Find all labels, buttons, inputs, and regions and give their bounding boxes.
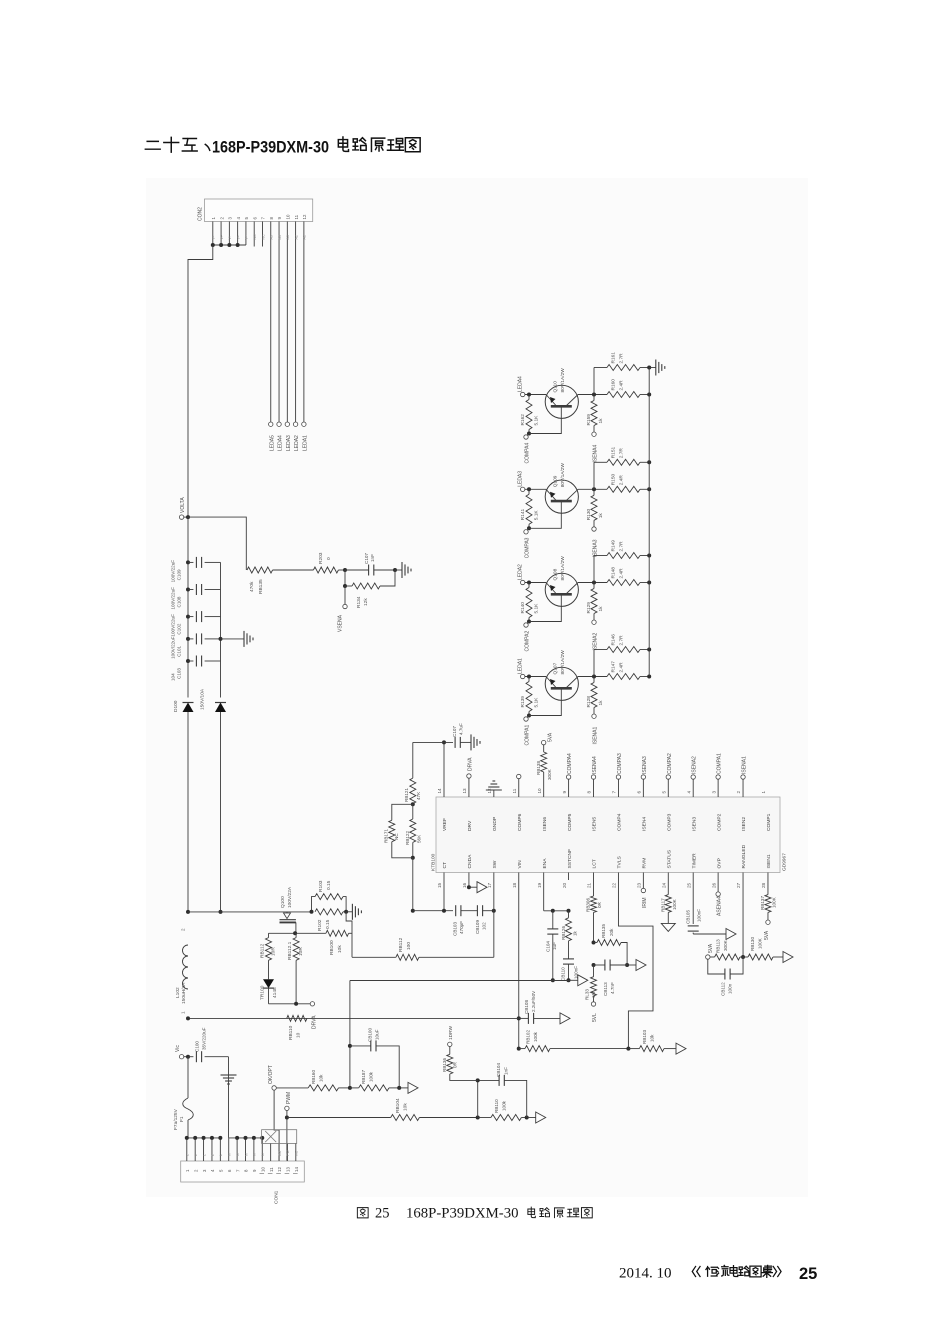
resistor RB113 300K (710, 939, 743, 960)
schematic background panel (146, 178, 808, 1197)
svg-text:F1: F1 (179, 1116, 185, 1122)
svg-text:NC: NC (394, 833, 399, 840)
svg-text:1nF: 1nF (504, 1067, 509, 1075)
svg-text:23: 23 (637, 882, 642, 888)
capacitor C101 100V/22uF (171, 633, 221, 659)
svg-text:100nF: 100nF (697, 909, 702, 922)
svg-text:Q110: Q110 (553, 381, 559, 393)
resistor R140 5.1K (520, 583, 540, 624)
resistor R151 2.7R (607, 447, 651, 466)
resistor R130 1k (586, 489, 604, 527)
net labels on CON2 wires (212, 234, 307, 240)
wire LEDA4 to base (525, 393, 546, 397)
svg-text:VREF: VREF (442, 818, 448, 831)
svg-text:RB100: RB100 (329, 940, 335, 955)
node 5VL (591, 1002, 598, 1022)
svg-text:150uH/3A: 150uH/3A (181, 982, 187, 1004)
svg-text:100K: 100K (772, 896, 777, 908)
ground (filter caps) (221, 631, 254, 647)
svg-text:RB112.1: RB112.1 (287, 941, 293, 960)
svg-text:1k: 1k (598, 418, 604, 424)
svg-text:C104: C104 (546, 941, 551, 952)
svg-text:R160: R160 (611, 379, 617, 391)
svg-text:TR100: TR100 (260, 985, 266, 1000)
svg-text:Q107: Q107 (553, 662, 559, 674)
title text (145, 137, 420, 157)
svg-text:7: 7 (612, 791, 617, 794)
resistor RB110 10 (287, 1015, 307, 1040)
svg-text:R139: R139 (520, 696, 526, 708)
node 5VA (pin28) (764, 920, 770, 940)
svg-text:5VA: 5VA (764, 930, 770, 940)
node ISENA1 (592, 714, 599, 745)
resistor RB112 100 (396, 937, 494, 960)
svg-text:COMP2: COMP2 (716, 813, 722, 831)
wire pin14 VREF (413, 740, 453, 797)
svg-text:ASENA4: ASENA4 (717, 896, 723, 916)
connector CON1 (14-pin) (181, 1161, 305, 1204)
wire pin22 TVLS route (618, 873, 653, 1049)
svg-text:PW: PW (286, 1150, 290, 1156)
resistor RB136 0R (442, 1025, 478, 1080)
svg-text:1k: 1k (573, 930, 578, 936)
svg-text:A1: A1 (303, 235, 307, 239)
svg-text:28: 28 (761, 882, 766, 888)
resistor RB137 100K (pin28) (760, 873, 777, 921)
node DRVA stub (pin13) (467, 757, 474, 797)
svg-text:1uF: 1uF (552, 942, 557, 950)
svg-text:STATUS: STATUS (666, 849, 672, 868)
svg-text:CON2: CON2 (198, 207, 204, 221)
resistor RB306 0R (pin21) (586, 873, 603, 945)
svg-text:N: N (244, 1153, 248, 1156)
wire CON1 pins1-5 tie (185, 1136, 223, 1140)
svg-text:2.4R: 2.4R (619, 475, 625, 486)
wire C100 to CON1 pin6 (228, 1057, 230, 1138)
wire CNDA net horizontal (350, 980, 569, 982)
svg-text:LEDA4: LEDA4 (278, 435, 284, 451)
node LEDA1 (518, 658, 525, 679)
svg-text:1k: 1k (598, 606, 604, 612)
capacitor C102 100V/22uF (171, 611, 221, 637)
node COMPA4 stub (566, 753, 573, 797)
svg-text:RB112: RB112 (260, 943, 266, 958)
svg-text:104: 104 (171, 673, 176, 681)
svg-text:6: 6 (637, 791, 642, 794)
svg-text:N: N (253, 1153, 257, 1156)
svg-text:R140: R140 (520, 602, 526, 614)
capacitor C103 104 (171, 656, 221, 682)
node ISENA2 (592, 620, 599, 651)
svg-text:1k: 1k (598, 513, 604, 519)
svg-text:V+: V+ (228, 235, 232, 240)
capacitor CB100 10uF (350, 1028, 399, 1088)
svg-text:N: N (261, 1153, 265, 1156)
resistor RB103 10k (628, 1030, 676, 1052)
svg-text:ISEN3: ISEN3 (691, 817, 697, 831)
svg-text:LCT: LCT (592, 859, 598, 868)
svg-text:LEDA5: LEDA5 (269, 435, 275, 451)
svg-text:R128: R128 (586, 696, 592, 708)
svg-text:Vic: Vic (175, 1045, 181, 1052)
svg-text:1k: 1k (598, 700, 604, 706)
svg-text:F7a/125V: F7a/125V (173, 1108, 179, 1130)
svg-text:10: 10 (286, 214, 291, 219)
svg-text:COMP6: COMP6 (517, 813, 523, 831)
net labels on CON1 wires (186, 1150, 299, 1156)
svg-text:ISEN6: ISEN6 (542, 817, 548, 831)
svg-text:L: L (194, 1154, 198, 1156)
resistor RL33 1M (585, 965, 597, 1002)
svg-text:L: L (219, 1154, 223, 1156)
wire Q109 collector (578, 487, 607, 491)
svg-text:0R: 0R (453, 1061, 458, 1068)
node COMPA4 (524, 434, 531, 464)
wire pin16 CNDA (467, 873, 477, 890)
ground flag (CNDA) (477, 882, 487, 893)
resistor RB171 NC (384, 804, 413, 858)
svg-text:TVLS: TVLS (617, 856, 623, 869)
svg-text:RB103: RB103 (642, 1030, 647, 1044)
resistor RB126 1k (561, 873, 578, 941)
svg-text:COMPA4: COMPA4 (525, 443, 531, 464)
svg-text:47K: 47K (416, 791, 421, 800)
transistor Q107 80V/1A/2W (545, 650, 578, 701)
svg-text:LEDA3: LEDA3 (518, 471, 524, 487)
svg-text:1: 1 (761, 791, 766, 794)
wire to R146 (594, 650, 607, 677)
svg-text:22: 22 (612, 882, 617, 888)
svg-text:4.7uF: 4.7uF (459, 723, 464, 735)
svg-text:ISENA3: ISENA3 (593, 539, 599, 557)
svg-text:IRIM: IRIM (642, 897, 648, 908)
svg-text:NC: NC (295, 1150, 299, 1156)
svg-text:CON1: CON1 (274, 1190, 280, 1204)
svg-text:10: 10 (296, 1032, 302, 1038)
capacitor CB110 100nF (561, 941, 579, 982)
fuse F1 F7a/125V (173, 1057, 193, 1138)
svg-text:25: 25 (375, 1206, 390, 1222)
svg-text:RB117: RB117 (661, 898, 666, 912)
capacitor C100 35V/220uF (188, 1027, 229, 1062)
svg-text:1nF: 1nF (370, 554, 375, 562)
resistor RB121 47K (404, 742, 421, 806)
node ISENA4 (592, 432, 599, 463)
svg-text:1M: 1M (591, 991, 596, 998)
resistor RB130 100K (743, 937, 783, 960)
node IRIM (pin23) (641, 873, 648, 909)
svg-text:2: 2 (736, 791, 741, 794)
wire SW row (352, 956, 396, 958)
svg-text:168P-P39DXM-30: 168P-P39DXM-30 (212, 138, 329, 157)
resistor R128 1k (586, 677, 604, 715)
svg-text:100V/22uF: 100V/22uF (171, 587, 176, 610)
svg-text:300K: 300K (547, 768, 552, 780)
svg-text:RB187: RB187 (361, 1070, 366, 1084)
svg-text:ENA: ENA (542, 858, 548, 869)
svg-text:R162: R162 (520, 414, 526, 426)
wire sense node down (346, 912, 352, 958)
svg-text:10R: 10R (271, 947, 277, 956)
ground (VREF bypass) (471, 734, 480, 750)
svg-text:10k: 10k (337, 945, 343, 953)
svg-text:25: 25 (799, 1265, 817, 1283)
ground (sense resistors) (346, 904, 361, 920)
svg-text:2.4R: 2.4R (619, 662, 625, 673)
wire VOLTA to divider (188, 517, 246, 570)
svg-text:35V/220uF: 35V/220uF (202, 1027, 207, 1050)
node VSENA (338, 586, 348, 632)
node Vic (175, 1045, 190, 1059)
svg-text:CB109: CB109 (475, 920, 480, 934)
svg-text:C109: C109 (177, 569, 182, 580)
node PWM (285, 1092, 292, 1111)
svg-text:A4: A4 (278, 235, 282, 239)
svg-text:R148: R148 (611, 567, 617, 579)
diode D100 (dual, 150V/10A) (173, 688, 226, 712)
wire diode legs to drain rail (186, 712, 223, 914)
svg-text:100K: 100K (758, 937, 763, 949)
ground GNDP (pin12) (486, 781, 502, 797)
svg-text:CB110: CB110 (561, 967, 566, 981)
svg-text:15: 15 (437, 882, 442, 888)
node OK/OPT (268, 1065, 276, 1090)
svg-text:13: 13 (286, 1167, 291, 1172)
resistor RB110 100k (478, 1099, 529, 1121)
svg-text:5.1K: 5.1K (534, 510, 540, 521)
svg-text:CB100: CB100 (368, 1028, 373, 1042)
svg-text:0.15: 0.15 (325, 919, 331, 929)
svg-text:V+: V+ (245, 235, 249, 240)
svg-text:RANGLED: RANGLED (741, 844, 747, 868)
svg-text:VOLTA: VOLTA (180, 497, 186, 513)
svg-text:27: 27 (736, 882, 741, 888)
node ISENA3 (592, 527, 599, 558)
svg-text:ISENA2: ISENA2 (593, 632, 599, 650)
svg-text:102: 102 (482, 922, 487, 930)
wire filter cap right-side rail (219, 562, 223, 697)
svg-text:C107: C107 (364, 553, 369, 564)
svg-text:10k: 10k (319, 1074, 324, 1082)
svg-text:A5: A5 (270, 235, 274, 239)
node COMPA3 stub (616, 753, 623, 797)
svg-text:2: 2 (181, 928, 186, 931)
wire Q107 base return (529, 688, 561, 715)
svg-text:COMP5: COMP5 (567, 813, 573, 831)
svg-text:R150: R150 (611, 474, 617, 486)
svg-text:R103: R103 (318, 880, 324, 892)
svg-text:C103: C103 (177, 668, 182, 679)
svg-text:ISEN1: ISEN1 (766, 854, 772, 868)
wire pin17 SW (493, 873, 495, 958)
node VOLTA (179, 497, 190, 520)
capacitor C107 1nF (345, 553, 397, 576)
resistor R149 2.7R (607, 540, 651, 559)
ground (emitter bus) (649, 360, 665, 376)
ground flag (PWM) (527, 1112, 546, 1123)
capacitor CB103 470pF (453, 905, 478, 936)
svg-text:COMPA2: COMPA2 (667, 753, 673, 774)
svg-text:COMP4: COMP4 (617, 813, 623, 831)
svg-text:LEDA1: LEDA1 (302, 435, 308, 451)
svg-text:CB112: CB112 (721, 982, 726, 996)
capacitor CB108 2.2uF/50V (519, 990, 560, 1024)
wire Q107 collector (578, 675, 607, 679)
wire PWM stub to CON1 pin13 (285, 1111, 289, 1162)
wires from CON2 pins (213, 222, 304, 423)
resistor RB112 10R (260, 933, 277, 979)
svg-text:RB135: RB135 (258, 579, 264, 594)
node COMPA3 (524, 528, 531, 558)
wire mid vertical (CNDA to OK/OPT) (348, 981, 352, 1088)
svg-text:13: 13 (462, 788, 467, 794)
transistor Q100 (MOSFET 100V/22A) (280, 886, 296, 933)
svg-text:5VA: 5VA (708, 943, 714, 953)
svg-text:150V/10A: 150V/10A (200, 688, 206, 710)
node COMPA2 (524, 622, 531, 652)
svg-text:C107: C107 (452, 726, 457, 737)
footer text (619, 1265, 817, 1283)
svg-text:LEDA1: LEDA1 (518, 658, 524, 674)
svg-text:VIN: VIN (517, 860, 523, 869)
caption text (357, 1206, 592, 1222)
node 5VA (timer set) (706, 943, 714, 959)
node COMPA1 stub (716, 753, 723, 797)
svg-text:470pF: 470pF (459, 921, 464, 934)
svg-text:RB306: RB306 (586, 898, 591, 912)
svg-text:10: 10 (260, 1167, 265, 1172)
wire OK/OPT to CON1 pin12 (274, 1090, 279, 1161)
resistor RB104 10k (287, 1098, 480, 1120)
ground (STATUS) (661, 923, 675, 931)
resistor RB100 10k (326, 930, 352, 955)
wire Q110 base return (529, 406, 561, 433)
svg-text:LEDA4: LEDA4 (518, 376, 524, 392)
capacitor C108 100V/22uF (171, 584, 221, 610)
svg-text:SSTCNF: SSTCNF (567, 849, 573, 869)
resistor R160 2.4R (607, 379, 651, 398)
svg-text:10uF: 10uF (375, 1029, 380, 1040)
wire emitter bus (648, 368, 650, 677)
node LEDA2 (518, 564, 525, 585)
svg-text:RB122: RB122 (405, 831, 410, 845)
svg-text:ISEN4: ISEN4 (642, 817, 648, 831)
svg-text:5.1K: 5.1K (534, 603, 540, 614)
svg-text:GD9967: GD9967 (782, 853, 788, 871)
svg-text:Q108: Q108 (553, 568, 559, 580)
resistor R139 5.1K (520, 677, 540, 718)
svg-text:C100: C100 (195, 1041, 200, 1052)
svg-text:A2: A2 (294, 235, 298, 239)
svg-text:R129: R129 (586, 602, 592, 614)
svg-text:D100: D100 (173, 700, 179, 712)
svg-text:RVM: RVM (642, 858, 648, 869)
svg-text:9: 9 (562, 791, 567, 794)
wire to R149 (594, 556, 607, 583)
svg-text:ISENA1: ISENA1 (742, 756, 748, 774)
svg-text:20: 20 (562, 882, 567, 888)
resistor R129 1k (586, 583, 604, 621)
svg-text:RB110: RB110 (288, 1025, 294, 1040)
svg-text:100V/22A: 100V/22A (287, 886, 293, 908)
capacitor CB113 4.7nF (592, 960, 628, 997)
svg-text:12: 12 (487, 788, 492, 794)
svg-text:N: N (228, 1153, 232, 1156)
svg-text:V+: V+ (212, 235, 216, 240)
resistor R141 5.1K (520, 489, 540, 530)
svg-text:L: L (186, 1154, 190, 1156)
wire to R151 (594, 462, 607, 489)
node COMPA2 stub (666, 753, 673, 797)
svg-text:RB138: RB138 (536, 761, 541, 775)
node ISENA1 stub (741, 756, 748, 797)
svg-text:DRVA: DRVA (467, 757, 473, 771)
node ISENA2 stub (691, 756, 698, 797)
node ISENA3 stub (641, 756, 648, 797)
op-amp U1 IC KTB100 / GD9967 28-pin controller (431, 788, 788, 888)
svg-text:26: 26 (711, 882, 716, 888)
svg-text:GNDP: GNDP (492, 817, 498, 831)
svg-text:RL33: RL33 (585, 989, 590, 1000)
svg-text:CB103: CB103 (453, 922, 458, 936)
svg-text:L102: L102 (175, 987, 181, 998)
wire LEDA1 to base (525, 675, 546, 679)
svg-text:C101: C101 (177, 645, 182, 656)
svg-text:11: 11 (294, 214, 299, 219)
svg-text:100n: 100n (728, 983, 733, 994)
svg-text:ISEN2: ISEN2 (741, 817, 747, 831)
capacitor CB112 100n (708, 957, 743, 996)
svg-text:0.15: 0.15 (326, 880, 332, 890)
svg-text:RB126: RB126 (561, 926, 566, 940)
resistor RB135 470k (247, 567, 313, 594)
svg-text:5VL: 5VL (592, 1013, 598, 1022)
resistor RB187 100k (350, 1070, 401, 1091)
svg-text:0R: 0R (597, 901, 602, 908)
svg-text:R203: R203 (318, 552, 324, 564)
resistor R159 1k (586, 395, 604, 433)
wire pin18 VIN (517, 873, 521, 1051)
resistor R147 2.4R (607, 661, 651, 680)
svg-text:R141: R141 (520, 509, 526, 521)
capacitor CB109 102 (475, 905, 496, 934)
svg-text:5.1K: 5.1K (534, 415, 540, 426)
node stubs LEDA5-LEDA1 (269, 422, 309, 451)
node LEDA3 (518, 471, 525, 492)
svg-text:10k: 10k (650, 1034, 655, 1042)
capacitor C107 4.7uF (452, 723, 471, 748)
wire pin27 RANGLED (741, 873, 745, 960)
svg-text:DRV: DRV (467, 820, 473, 831)
svg-text:300K: 300K (723, 939, 728, 951)
svg-text:80V/1A/2W: 80V/1A/2W (560, 368, 566, 393)
resistor RB138 300K to 5VA (536, 732, 554, 797)
svg-text:2.7R: 2.7R (619, 635, 625, 646)
transistor Q110 80V/1A/2W (545, 368, 578, 419)
wire LEDA3 to base (525, 487, 546, 491)
node LEDA4 (518, 376, 525, 397)
transistor Q108 80V/1A/2W (545, 556, 578, 607)
capacitor CB104 1nF (476, 1063, 527, 1118)
svg-text:0: 0 (326, 557, 332, 560)
svg-text:100: 100 (406, 942, 412, 950)
svg-text:CB105: CB105 (686, 910, 691, 924)
svg-text:ISEN5: ISEN5 (592, 817, 598, 831)
svg-text:RB113: RB113 (716, 939, 721, 953)
svg-text:5VA: 5VA (548, 732, 554, 742)
svg-text:R134: R134 (356, 596, 362, 608)
connector CON2 (12-pin header) (198, 199, 313, 222)
